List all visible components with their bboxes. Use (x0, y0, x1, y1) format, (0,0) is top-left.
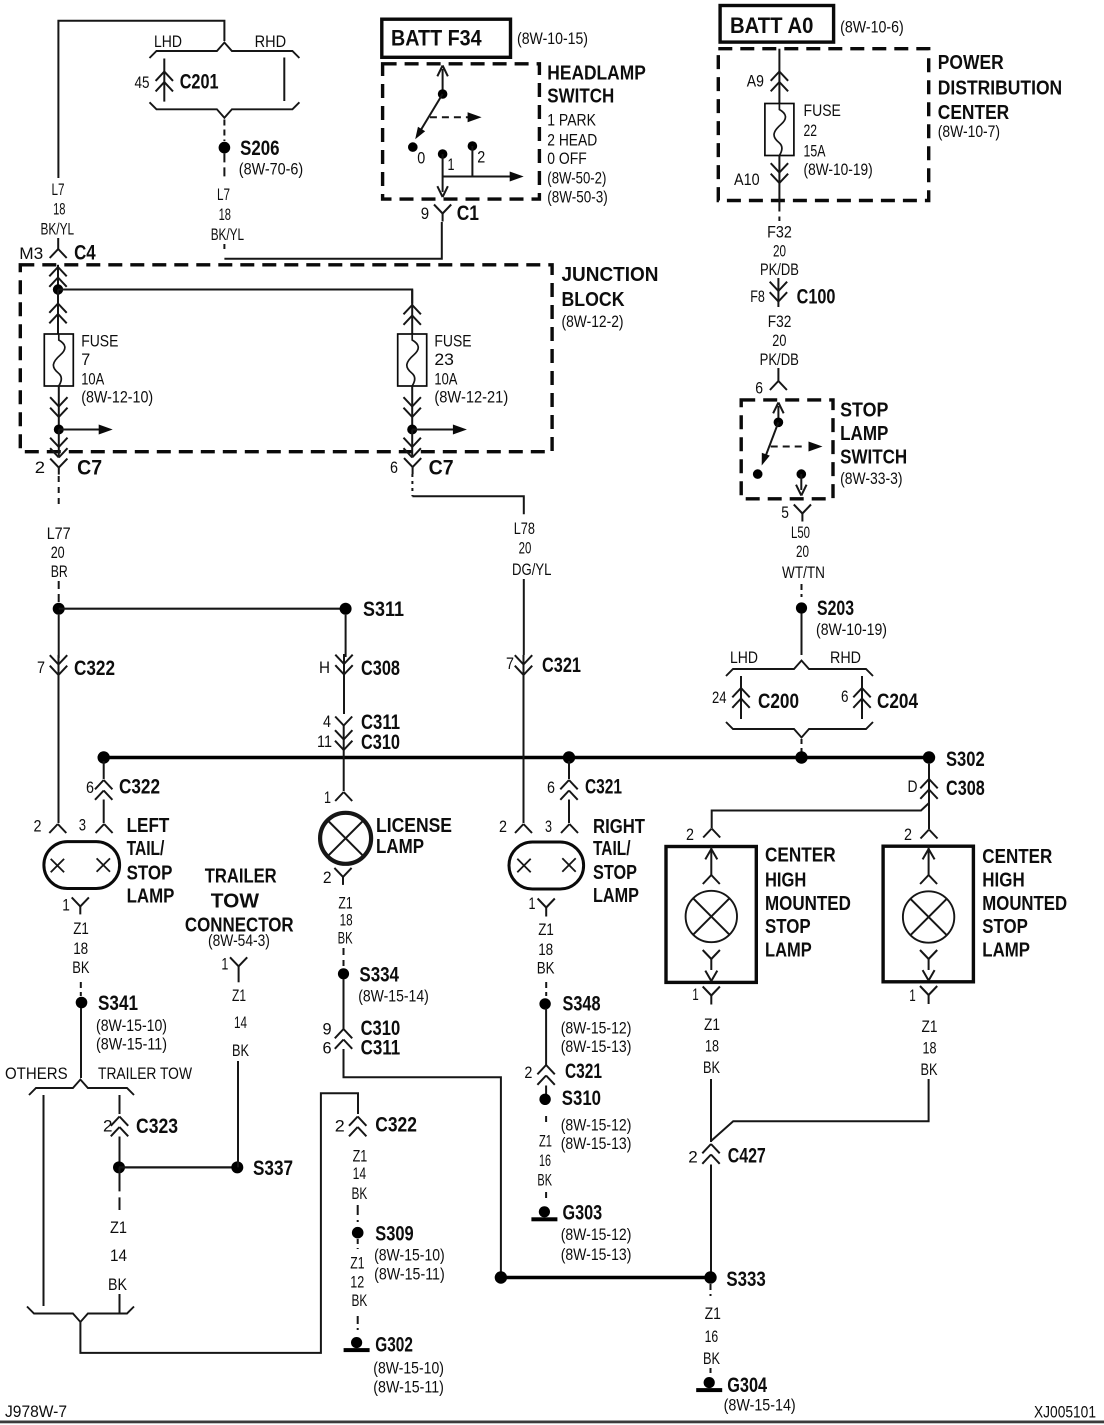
svg-text:(8W-15-13): (8W-15-13) (561, 1134, 632, 1153)
svg-text:1: 1 (692, 985, 699, 1004)
svg-text:JUNCTION: JUNCTION (562, 264, 659, 286)
svg-text:(8W-15-10): (8W-15-10) (374, 1246, 445, 1265)
svg-text:18: 18 (73, 939, 88, 958)
svg-text:10A: 10A (81, 370, 105, 389)
connector C311-4 symbol (335, 717, 344, 726)
splice S311 left dot (53, 603, 65, 615)
svg-text:LAMP: LAMP (376, 836, 424, 858)
svg-text:Z1: Z1 (922, 1017, 938, 1036)
svg-text:20: 20 (796, 542, 809, 561)
svg-text:BK: BK (352, 1184, 368, 1203)
svg-text:18: 18 (923, 1039, 937, 1058)
wire trailer to S337 (237, 1061, 239, 1167)
wire C323 to S337 (119, 1166, 237, 1168)
wire S310 dash (545, 1116, 547, 1124)
brace LHD/RHD over C200 (726, 661, 873, 677)
connector C321-7 symbol (523, 655, 525, 678)
switch position 0 contact (408, 142, 418, 152)
svg-text:(8W-33-3): (8W-33-3) (840, 469, 902, 488)
svg-text:5: 5 (781, 503, 789, 522)
svg-text:C321: C321 (565, 1060, 602, 1083)
CHMSL1 inner Y (703, 950, 712, 959)
svg-text:2: 2 (335, 1117, 345, 1136)
svg-text:L77: L77 (47, 524, 71, 543)
svg-text:M3: M3 (19, 244, 43, 263)
connector C7 pin2 symbol (50, 459, 59, 468)
JB wire below fuse 7 (58, 386, 60, 430)
headlamp switch box (383, 64, 540, 199)
svg-text:F8: F8 (750, 287, 765, 306)
svg-text:1: 1 (448, 155, 455, 174)
svg-text:G302: G302 (375, 1334, 413, 1357)
svg-text:OTHERS: OTHERS (5, 1064, 68, 1083)
svg-text:C200: C200 (758, 690, 799, 713)
splice S309 (352, 1227, 364, 1239)
svg-text:LAMP: LAMP (982, 939, 1030, 961)
wire to S311 (58, 581, 60, 603)
connector C427 symbol (702, 1144, 711, 1153)
svg-text:PK/DB: PK/DB (760, 260, 799, 279)
brace to ground run (27, 1307, 134, 1323)
svg-text:2: 2 (103, 1117, 113, 1136)
splice S203 (796, 602, 807, 613)
svg-text:MOUNTED: MOUNTED (982, 893, 1067, 915)
bus junction left (98, 751, 110, 763)
CHMSL2 inner chevron (920, 875, 929, 884)
svg-text:LAMP: LAMP (127, 885, 175, 907)
svg-text:CENTER: CENTER (765, 845, 836, 867)
svg-text:1: 1 (529, 894, 536, 913)
svg-text:BK: BK (921, 1060, 938, 1079)
svg-text:RHD: RHD (830, 648, 861, 667)
bus junction C200 (795, 751, 807, 763)
svg-text:TRAILER: TRAILER (205, 866, 277, 888)
wire C7-6 down (411, 474, 413, 496)
svg-text:S348: S348 (563, 993, 601, 1016)
svg-text:(8W-15-11): (8W-15-11) (96, 1035, 167, 1054)
svg-text:C308: C308 (946, 777, 985, 800)
wire c323 to brace2 (119, 1294, 121, 1314)
right tail lamp body (509, 842, 584, 889)
connector pin2 license (334, 868, 343, 877)
svg-text:20: 20 (519, 538, 532, 557)
connector C321-2 symbol (537, 1065, 546, 1074)
svg-text:(8W-10-7): (8W-10-7) (938, 122, 1000, 141)
center high mounted stop lamp 1 box (666, 847, 756, 983)
svg-text:C100: C100 (797, 285, 836, 308)
JB entry chevrons C4 (57, 265, 59, 290)
svg-text:3: 3 (545, 817, 552, 836)
wire CHMSL2 down to merge (711, 1079, 929, 1141)
JB exit chevrons (23) (411, 430, 413, 457)
battery feed box BATT F34 (382, 19, 511, 57)
wire S311 to C308-H (345, 615, 347, 657)
svg-text:9: 9 (323, 1020, 332, 1039)
connector C323 symbol (111, 1117, 120, 1126)
switch wiper arm (418, 94, 443, 136)
svg-text:(8W-70-6): (8W-70-6) (239, 160, 303, 179)
wire to S348 (545, 982, 547, 996)
fuse 7 symbol (44, 334, 73, 386)
stop switch output arrow (800, 474, 802, 490)
svg-text:1 PARK: 1 PARK (547, 111, 596, 130)
svg-text:2: 2 (477, 147, 485, 166)
wire to S309 (357, 1205, 359, 1222)
JB exit chevrons (7) (58, 430, 60, 457)
wire S203 to brace (801, 614, 803, 656)
svg-text:S334: S334 (359, 964, 399, 987)
svg-text:BK: BK (703, 1058, 720, 1077)
wire ground run (80, 1093, 358, 1353)
wire CHMSL1 down (710, 1079, 712, 1142)
svg-text:DG/YL: DG/YL (512, 560, 552, 579)
svg-text:LEFT: LEFT (127, 815, 170, 837)
svg-text:BR: BR (51, 562, 68, 581)
stop lamp switch feed arrow (777, 406, 779, 422)
svg-text:14: 14 (110, 1246, 127, 1265)
ground G304 (704, 1377, 715, 1388)
svg-text:2: 2 (323, 868, 332, 887)
svg-text:4: 4 (323, 712, 331, 731)
svg-text:22: 22 (804, 121, 818, 140)
JB chevrons above fuse 23 (411, 290, 413, 335)
svg-text:L50: L50 (791, 523, 810, 542)
splice S311 (340, 603, 352, 615)
svg-text:D: D (908, 777, 918, 796)
fuse 23 symbol (398, 334, 427, 386)
svg-text:S337: S337 (253, 1157, 293, 1180)
center high mounted stop lamp 2 box (883, 846, 973, 982)
svg-text:BK: BK (72, 958, 90, 977)
wire C310 to license lamp (343, 752, 345, 791)
svg-text:0: 0 (417, 149, 425, 168)
splice S337 (231, 1161, 243, 1173)
svg-text:BK: BK (703, 1349, 720, 1368)
svg-text:S309: S309 (375, 1223, 413, 1246)
switch position 1 contact (438, 149, 448, 159)
svg-text:S310: S310 (562, 1087, 601, 1110)
connector C308-H symbol (343, 654, 345, 680)
CHMSL2 pin arrow in (928, 846, 930, 875)
svg-text:6: 6 (323, 1039, 332, 1058)
svg-text:C311: C311 (361, 1036, 401, 1059)
svg-text:C427: C427 (728, 1145, 766, 1168)
right tail lamp filament x1 (517, 859, 530, 872)
svg-text:Z1: Z1 (538, 920, 554, 939)
connector C4 symbol (57, 238, 59, 249)
svg-text:C7: C7 (77, 456, 102, 479)
connector chevrons A10 (778, 156, 780, 201)
svg-text:L7: L7 (217, 185, 230, 204)
svg-text:(8W-12-21): (8W-12-21) (434, 388, 508, 407)
svg-text:C308: C308 (361, 657, 400, 680)
headlamp switch feed arrow (442, 69, 444, 94)
svg-text:PK/DB: PK/DB (760, 350, 799, 369)
wire S311 to C322-7 (58, 615, 60, 658)
svg-text:(8W-15-11): (8W-15-11) (373, 1378, 444, 1397)
svg-text:BK: BK (232, 1041, 249, 1060)
svg-text:2: 2 (904, 825, 912, 844)
wire trailer branch (119, 1095, 121, 1114)
svg-text:SWITCH: SWITCH (547, 86, 614, 108)
svg-text:C321: C321 (542, 654, 581, 677)
wire C322-7 to lamp (58, 678, 60, 823)
svg-text:(8W-15-14): (8W-15-14) (724, 1396, 796, 1415)
svg-text:(8W-15-12): (8W-15-12) (561, 1225, 632, 1244)
svg-text:6: 6 (390, 458, 398, 477)
JB feed wire to fuse 23 (58, 290, 412, 304)
connector pin 6 symbol (777, 368, 779, 381)
svg-text:(8W-54-3): (8W-54-3) (208, 931, 270, 950)
svg-text:20: 20 (51, 543, 65, 562)
JB dot fuse 23 out (407, 425, 417, 435)
splice S333 (704, 1271, 716, 1283)
svg-text:(8W-15-14): (8W-15-14) (358, 987, 429, 1006)
wire to G302 (357, 1316, 359, 1330)
wire C308H to C311 (343, 680, 345, 714)
svg-text:C322: C322 (375, 1114, 417, 1137)
pin chevron 2 right lamp (515, 824, 524, 833)
svg-text:RHD: RHD (255, 32, 287, 51)
svg-text:0 OFF: 0 OFF (547, 149, 586, 168)
svg-text:1: 1 (62, 895, 70, 914)
connector C7 pin6 symbol (404, 458, 413, 467)
svg-text:XJ005101: XJ005101 (1034, 1403, 1096, 1422)
svg-text:TRAILER TOW: TRAILER TOW (98, 1064, 192, 1083)
svg-text:(8W-10-6): (8W-10-6) (840, 18, 904, 37)
svg-text:Z1: Z1 (232, 986, 246, 1005)
svg-text:18: 18 (705, 1037, 719, 1056)
svg-text:BATT F34: BATT F34 (391, 26, 482, 51)
CHMSL1 bottom arrow (705, 971, 711, 981)
svg-text:20: 20 (772, 331, 786, 350)
connector C322-7 symbol (58, 655, 60, 678)
connector C1 pin5 symbol (794, 505, 803, 514)
svg-text:STOP: STOP (593, 862, 637, 884)
ground bus wire (104, 756, 929, 759)
svg-text:BK: BK (537, 1171, 552, 1190)
switch output wires (442, 154, 444, 177)
svg-text:(8W-10-15): (8W-10-15) (517, 29, 588, 48)
svg-text:L7: L7 (52, 180, 65, 199)
svg-text:(8W-12-10): (8W-12-10) (81, 388, 153, 407)
svg-text:STOP: STOP (127, 863, 173, 885)
left tail lamp body (44, 842, 120, 889)
wire bus to C322-6 (103, 761, 105, 779)
wire others branch (43, 1095, 45, 1306)
svg-text:16: 16 (705, 1327, 719, 1346)
svg-text:1: 1 (221, 955, 228, 974)
svg-text:DISTRIBUTION: DISTRIBUTION (938, 77, 1062, 99)
wire S333 down (710, 1284, 712, 1296)
svg-text:(8W-10-19): (8W-10-19) (816, 620, 887, 639)
stop switch common contact (774, 418, 784, 428)
svg-text:BLOCK: BLOCK (562, 289, 625, 311)
svg-text:FUSE: FUSE (81, 332, 118, 351)
svg-text:7: 7 (37, 658, 45, 677)
wire S341 to brace (80, 1008, 82, 1078)
svg-text:C204: C204 (877, 690, 918, 713)
pin chevron left CHMSL (703, 829, 712, 838)
svg-text:C1: C1 (457, 202, 480, 225)
wire below C323 dot (119, 1167, 121, 1210)
svg-text:C310: C310 (361, 731, 400, 754)
svg-text:(8W-15-10): (8W-15-10) (373, 1359, 444, 1378)
wire feed from C201 brace to C4 (58, 21, 224, 178)
pin chevron right CHMSL (921, 830, 930, 839)
fuse 22 symbol (765, 104, 794, 156)
svg-text:(8W-15-12): (8W-15-12) (561, 1115, 632, 1134)
connector C204 symbol (861, 676, 863, 719)
connector pin1 left lamp (72, 897, 81, 906)
svg-text:C321: C321 (585, 776, 622, 799)
svg-text:11: 11 (317, 732, 332, 751)
svg-text:J978W-7: J978W-7 (5, 1402, 67, 1421)
svg-text:6: 6 (86, 778, 94, 797)
connector C310/C311 symbol (335, 1029, 344, 1038)
svg-text:1: 1 (324, 788, 331, 807)
svg-text:C322: C322 (74, 657, 115, 680)
wire C427 to S333 (710, 1165, 712, 1272)
wire to S333 (thick) (501, 1276, 711, 1279)
svg-text:STOP: STOP (765, 916, 811, 938)
svg-text:C322: C322 (119, 776, 160, 799)
svg-text:LICENSE: LICENSE (376, 815, 452, 837)
svg-text:BK/YL: BK/YL (211, 225, 244, 244)
wire RHD branch (283, 58, 285, 102)
connector C308 D symbol (928, 764, 930, 803)
svg-text:Z1: Z1 (350, 1253, 364, 1272)
right tail lamp filament x2 (562, 858, 575, 871)
connector pin1 trailer (230, 957, 239, 966)
svg-text:3: 3 (79, 816, 86, 835)
connector pin1 CHMSL1 (703, 987, 712, 996)
junction dot C323 (113, 1161, 125, 1173)
svg-text:18: 18 (53, 200, 65, 219)
wire to S203 (801, 584, 803, 597)
svg-text:Z1: Z1 (704, 1015, 720, 1034)
CHMSL2 bottom arrow (923, 970, 929, 980)
wire brace to bus (801, 739, 803, 752)
wire license to S334 (343, 948, 345, 966)
splice S341 (76, 997, 88, 1009)
svg-text:24: 24 (712, 688, 727, 707)
stop switch wiper arm (765, 422, 779, 459)
svg-text:C323: C323 (136, 1115, 178, 1138)
svg-text:18: 18 (219, 205, 231, 224)
svg-text:(8W-50-2): (8W-50-2) (547, 168, 606, 187)
wire C308 to right CHMSL (928, 803, 930, 829)
CHMSL1 bulb (686, 891, 737, 942)
splice S334 (338, 968, 349, 979)
svg-text:FUSE: FUSE (434, 332, 471, 351)
svg-text:2: 2 (34, 817, 42, 836)
brace under C201 (150, 102, 300, 118)
svg-text:S333: S333 (726, 1268, 765, 1291)
svg-text:LAMP: LAMP (593, 885, 639, 907)
switch common contact (438, 89, 448, 99)
svg-text:CENTER: CENTER (982, 846, 1052, 868)
svg-text:G303: G303 (563, 1201, 603, 1224)
svg-text:S203: S203 (817, 597, 854, 620)
svg-text:TAIL/: TAIL/ (593, 838, 631, 860)
JB arrow right (23) (412, 429, 453, 431)
svg-text:18: 18 (538, 940, 553, 959)
svg-text:BK: BK (108, 1275, 128, 1294)
svg-text:(8W-15-10): (8W-15-10) (96, 1016, 167, 1035)
svg-text:STOP: STOP (840, 399, 888, 421)
JB arrow right (7) (59, 429, 99, 431)
wire C7-2 down (58, 476, 60, 504)
brace others/trailer (29, 1080, 134, 1096)
JB dot fuse 7 out (54, 425, 64, 435)
connector C201 pin 45 symbol (163, 59, 165, 102)
wire C321-7 to lamp (523, 678, 525, 823)
svg-text:CENTER: CENTER (938, 102, 1010, 124)
wire S334 to C310-9 (343, 979, 345, 1029)
svg-text:POWER: POWER (938, 52, 1004, 74)
svg-text:(8W-50-3): (8W-50-3) (547, 187, 607, 206)
svg-text:S341: S341 (98, 992, 138, 1015)
svg-text:C4: C4 (74, 241, 96, 264)
svg-text:G304: G304 (727, 1374, 767, 1397)
svg-text:TAIL/: TAIL/ (127, 838, 165, 860)
switch output arrow down (442, 177, 444, 193)
svg-text:C7: C7 (429, 456, 454, 479)
pin chevron 3 right lamp (561, 824, 570, 833)
svg-text:BK: BK (537, 959, 555, 978)
svg-text:(8W-12-2): (8W-12-2) (562, 312, 624, 331)
connector C200 symbol (740, 676, 742, 719)
junction block box (20, 265, 552, 452)
svg-text:F32: F32 (768, 312, 792, 331)
ground G303 (539, 1206, 550, 1217)
svg-text:7: 7 (506, 654, 514, 673)
connector pin1 CHMSL2 (920, 986, 929, 995)
svg-text:L78: L78 (514, 519, 535, 538)
bus junction C321 (563, 751, 575, 763)
svg-text:BATT A0: BATT A0 (730, 13, 813, 38)
CHMSL1 inner chevron (703, 875, 712, 884)
connector pin1 right lamp (538, 899, 547, 908)
pin chevron 2 left lamp (49, 824, 58, 833)
svg-text:LHD: LHD (730, 648, 758, 667)
svg-text:S302: S302 (946, 748, 985, 771)
stop switch motion arrow (771, 446, 806, 448)
stop switch output contact (797, 469, 807, 479)
svg-text:2: 2 (524, 1063, 532, 1082)
svg-text:BK: BK (338, 928, 353, 947)
pin chevron 3 left lamp (96, 824, 105, 833)
svg-text:15A: 15A (804, 142, 826, 161)
svg-text:(8W-15-11): (8W-15-11) (374, 1265, 445, 1284)
svg-text:MOUNTED: MOUNTED (765, 893, 851, 915)
ground G302 (351, 1337, 362, 1348)
svg-text:FUSE: FUSE (804, 101, 841, 120)
svg-text:TOW: TOW (211, 891, 259, 913)
svg-text:STOP: STOP (982, 916, 1028, 938)
JB wire below fuse 23 (411, 386, 413, 430)
svg-text:(8W-15-13): (8W-15-13) (561, 1037, 632, 1056)
svg-text:Z1: Z1 (705, 1304, 721, 1323)
JB chevrons above fuse 7 (57, 290, 59, 335)
svg-text:16: 16 (539, 1151, 551, 1170)
svg-text:2: 2 (688, 1148, 698, 1167)
svg-text:S206: S206 (240, 137, 279, 160)
svg-text:F32: F32 (767, 222, 792, 241)
connector C1 symbol (434, 205, 443, 214)
wire S348 to C321-2 (545, 1008, 547, 1065)
